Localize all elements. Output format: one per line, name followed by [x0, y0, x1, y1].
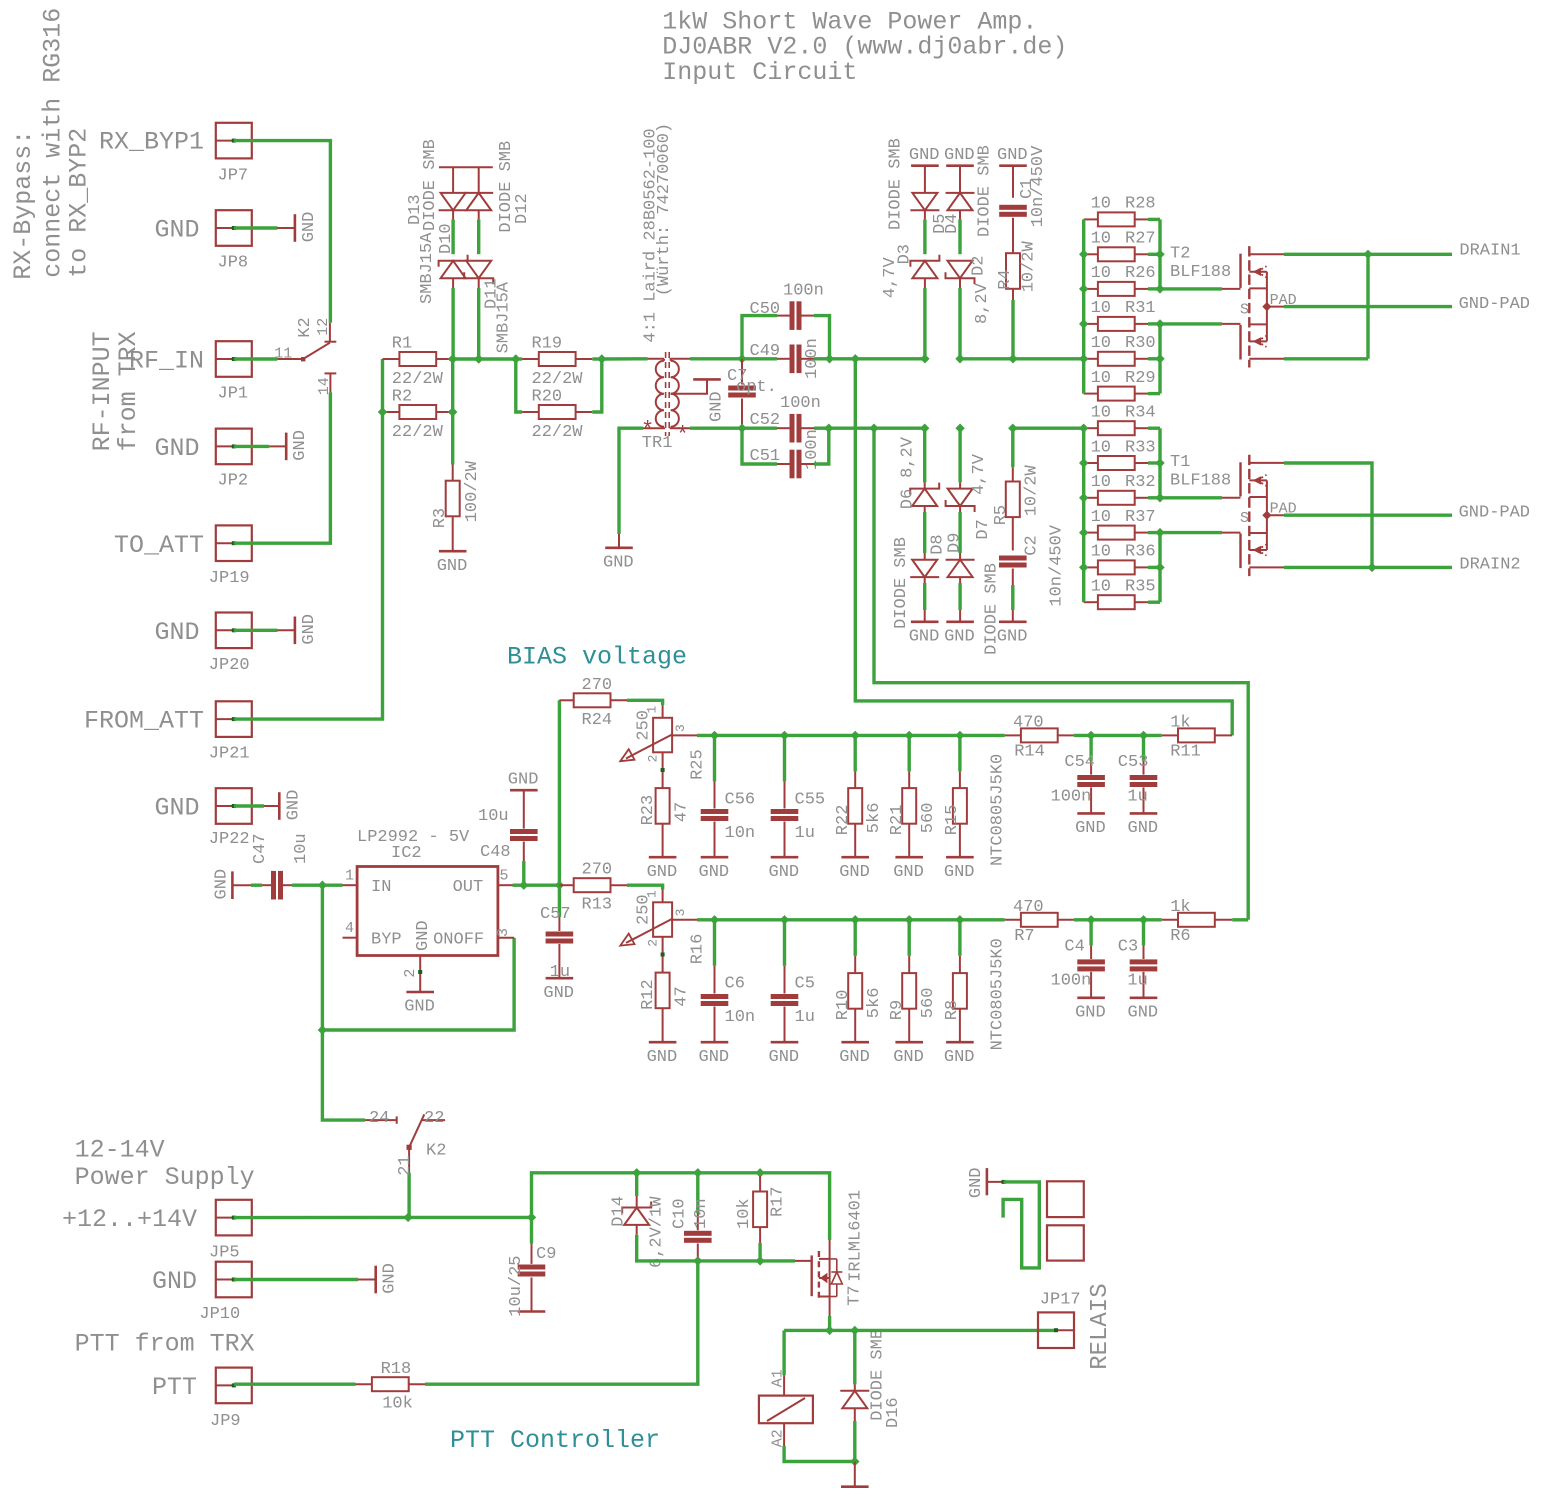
- ground at D4: [946, 164, 974, 167]
- trimmer R25 250: [653, 718, 672, 753]
- svg-text:R30: R30: [1125, 334, 1156, 353]
- svg-text:R15: R15: [943, 805, 962, 836]
- svg-text:C3: C3: [1118, 938, 1138, 957]
- svg-text:10: 10: [1091, 369, 1111, 388]
- svg-text:R4: R4: [996, 269, 1015, 289]
- svg-text:GND: GND: [1075, 819, 1106, 838]
- svg-text:TR1: TR1: [642, 434, 673, 453]
- resistor R8: [958, 920, 961, 956]
- ground at C56: [701, 856, 729, 859]
- op-amp U1 regulator IC2 LP2992 box: [357, 867, 498, 956]
- svg-text:3: 3: [495, 928, 512, 937]
- wire OUT node: [513, 884, 524, 887]
- capacitor C1 10n/450V: [1012, 166, 1014, 198]
- svg-text:DIODE SMB: DIODE SMB: [421, 139, 440, 231]
- wire gate rail: [698, 1259, 760, 1262]
- junction C7 bottom: [737, 424, 746, 433]
- svg-text:4: 4: [345, 920, 354, 937]
- diode D4 (DIODE SMB): [959, 166, 961, 193]
- transistor T1 (BLF188): [1239, 462, 1241, 496]
- ground at C1: [999, 164, 1027, 167]
- svg-text:C56: C56: [725, 790, 756, 809]
- svg-text:S: S: [1240, 510, 1249, 527]
- junction gate1 T2: [1155, 284, 1164, 293]
- junction D7: [955, 424, 964, 433]
- svg-text:22/2W: 22/2W: [392, 423, 444, 442]
- junction K2 pin 21: [403, 1213, 412, 1222]
- connector box spare 1: [1047, 1181, 1084, 1217]
- wire PTT to R18: [234, 1382, 356, 1385]
- svg-text:K2: K2: [296, 317, 315, 337]
- ground at C47: [231, 871, 234, 899]
- svg-text:A2: A2: [770, 1429, 787, 1447]
- wire T1 PAD to GND-PAD: [1284, 514, 1452, 517]
- svg-text:BYP: BYP: [371, 931, 402, 950]
- svg-text:GND: GND: [212, 869, 231, 900]
- svg-text:10u: 10u: [292, 833, 311, 864]
- resistor R33 (10): [1084, 462, 1098, 464]
- junction bias row1: [780, 731, 789, 740]
- svg-text:GND: GND: [152, 1267, 197, 1296]
- wire row1 to C1R4: [960, 357, 1013, 360]
- capacitor C49: [742, 357, 777, 360]
- svg-text:3: 3: [673, 724, 688, 732]
- junction bank2 top: [1079, 424, 1088, 433]
- svg-text:SMBJ15A: SMBJ15A: [495, 281, 514, 353]
- junction D2: [955, 354, 964, 363]
- svg-text:R22: R22: [834, 805, 853, 836]
- svg-text:4,7V: 4,7V: [970, 453, 989, 495]
- svg-text:C49: C49: [750, 342, 781, 361]
- capacitor C56 10n: [713, 735, 716, 781]
- svg-text:D7: D7: [974, 519, 993, 539]
- svg-text:GND: GND: [839, 1048, 870, 1067]
- wire JP8 to ground: [234, 226, 278, 229]
- svg-text:2: 2: [646, 939, 661, 947]
- connector JP9: [216, 1368, 252, 1404]
- capacitor C47 10u: [232, 884, 251, 886]
- wire K2 pin 14 to TO_ATT: [234, 392, 331, 543]
- resistor R7 470: [1005, 919, 1022, 921]
- svg-text:47: 47: [672, 986, 691, 1006]
- junction R17 top: [755, 1168, 764, 1177]
- diode D11 (SMBJ15A): [466, 261, 491, 278]
- resistor R34 (10): [1084, 427, 1098, 429]
- svg-text:(Würth: 74270060): (Würth: 74270060): [655, 123, 674, 296]
- connector JP17: [1038, 1312, 1074, 1348]
- wire bank1 right bus upper: [1158, 219, 1161, 289]
- junction bias row1: [905, 731, 914, 740]
- svg-text:TO_ATT: TO_ATT: [114, 531, 204, 560]
- ground at C57: [546, 977, 574, 980]
- svg-text:GND-PAD: GND-PAD: [1459, 504, 1530, 523]
- zener D2 8.2V: [948, 261, 973, 278]
- svg-text:GND: GND: [699, 863, 730, 882]
- svg-text:R27: R27: [1125, 230, 1156, 249]
- ground at R22: [841, 856, 869, 859]
- svg-text:DIODE SMB: DIODE SMB: [975, 145, 994, 237]
- svg-text:D16: D16: [884, 1397, 903, 1428]
- resistor R17 10k: [758, 1173, 761, 1176]
- wire T2 PAD to GND-PAD: [1284, 305, 1452, 308]
- svg-text:T2: T2: [1170, 245, 1190, 264]
- resistor R3: [452, 465, 454, 481]
- wire bank1 right bus lower: [1158, 324, 1161, 394]
- junction node A (R1 right): [448, 354, 457, 363]
- svg-text:C47: C47: [251, 833, 270, 864]
- capacitor C10 10n: [696, 1173, 699, 1213]
- junction bias row2: [710, 915, 719, 924]
- svg-text:10n: 10n: [725, 1008, 756, 1027]
- junction gate1 T1: [1155, 493, 1164, 502]
- ground at spare: [986, 1168, 989, 1195]
- svg-text:JP17: JP17: [1040, 1291, 1081, 1310]
- svg-text:JP1: JP1: [218, 384, 249, 403]
- svg-text:R13: R13: [582, 896, 613, 915]
- svg-text:R8: R8: [943, 1000, 962, 1020]
- svg-text:R17: R17: [769, 1186, 788, 1217]
- connector JP21: [216, 701, 252, 737]
- diode D5 (DIODE SMB): [924, 166, 926, 193]
- svg-text:NTC0805J5K0: NTC0805J5K0: [988, 754, 1007, 866]
- junction D3: [920, 354, 929, 363]
- wire D3 to RF row1: [923, 288, 926, 359]
- transistor T2 (BLF188): [1239, 254, 1241, 288]
- junction bias row2: [780, 915, 789, 924]
- svg-text:R2: R2: [392, 388, 412, 407]
- junction bank1 right lower: [1155, 354, 1164, 363]
- junction R17 bottom: [755, 1256, 764, 1265]
- wire D7-D9: [958, 512, 961, 553]
- svg-text:C5: C5: [795, 975, 815, 994]
- svg-text:R31: R31: [1125, 299, 1156, 318]
- ground at JP10: [374, 1266, 377, 1294]
- svg-text:8,2V: 8,2V: [973, 282, 992, 324]
- svg-text:R34: R34: [1125, 404, 1156, 423]
- svg-text:GND: GND: [381, 1263, 400, 1294]
- connector JP20: [216, 613, 252, 649]
- ground at R15: [946, 856, 974, 859]
- wire IN to pin 1: [322, 884, 342, 887]
- svg-text:R21: R21: [888, 805, 907, 836]
- ground at C3: [1130, 996, 1158, 999]
- ground at C6: [701, 1041, 729, 1044]
- capacitor C50: [742, 316, 777, 359]
- wire R1-R2 right tie: [449, 357, 453, 360]
- ground at C48: [510, 789, 538, 792]
- capacitor C6 10n: [713, 920, 716, 966]
- svg-text:GND: GND: [300, 614, 319, 645]
- svg-text:C2: C2: [1023, 535, 1042, 555]
- ground at JP8: [294, 214, 297, 242]
- svg-text:1u: 1u: [795, 824, 815, 843]
- wire R18 to PTT controller: [425, 1261, 698, 1384]
- svg-text:GND: GND: [944, 146, 975, 165]
- wire down to R3: [451, 412, 454, 465]
- ground at TR1 center tap: [693, 378, 721, 381]
- svg-text:GND: GND: [1075, 1003, 1106, 1022]
- transformer TR1: [656, 361, 664, 427]
- junction C10 bottom: [693, 1256, 702, 1265]
- wire D2 to RF row1: [958, 288, 961, 359]
- junction C53: [1139, 731, 1148, 740]
- junction C50 right: [825, 354, 834, 363]
- wire R13 to trimmer R16: [627, 885, 663, 889]
- svg-text:GND: GND: [1128, 1003, 1159, 1022]
- wire R19-R20 right tie: [592, 359, 602, 412]
- svg-text:GND: GND: [284, 790, 303, 821]
- wire T1 drain top: [1284, 463, 1372, 567]
- svg-text:R26: R26: [1125, 264, 1156, 283]
- junction OUT/C57: [555, 881, 564, 890]
- svg-text:10n: 10n: [692, 1198, 711, 1229]
- svg-text:10/2W: 10/2W: [1019, 240, 1038, 292]
- resistor R26 (10): [1084, 288, 1098, 290]
- wire gate1 to T1: [1160, 496, 1222, 499]
- svg-text:R19: R19: [532, 335, 563, 354]
- junction bias row2: [851, 915, 860, 924]
- svg-text:PTT Controller: PTT Controller: [450, 1426, 660, 1455]
- junction D16 top: [850, 1326, 859, 1335]
- svg-text:22/2W: 22/2W: [532, 370, 584, 389]
- wire T2 drain bottom: [1284, 357, 1368, 360]
- ground at R10: [841, 1041, 869, 1044]
- junction D14 top: [632, 1168, 641, 1177]
- junction gnd node: [850, 1457, 859, 1466]
- svg-text:JP7: JP7: [218, 166, 249, 185]
- svg-text:R9: R9: [888, 1000, 907, 1020]
- junction C48: [519, 881, 528, 890]
- svg-text:250: 250: [635, 710, 654, 741]
- connector box spare 2: [1047, 1225, 1084, 1260]
- wire RF row 1: [453, 357, 516, 360]
- capacitor C2 10n/450V: [999, 556, 1027, 561]
- resistor R30 (10): [1084, 358, 1098, 360]
- junction bias row2: [905, 915, 914, 924]
- diode D13 (DIODE SMB): [439, 166, 493, 168]
- svg-text:22/2W: 22/2W: [532, 423, 584, 442]
- svg-text:GND: GND: [603, 553, 634, 572]
- svg-text:270: 270: [582, 676, 613, 695]
- resistor R11 1k: [1144, 734, 1162, 737]
- svg-text:C4: C4: [1064, 938, 1084, 957]
- wire D11 to node A: [477, 288, 480, 359]
- svg-text:opt.: opt.: [736, 378, 777, 397]
- svg-text:10: 10: [1091, 195, 1111, 214]
- ground at TR1 primary: [605, 546, 633, 549]
- junction bias row1: [851, 731, 860, 740]
- connector JP8: [216, 210, 252, 246]
- svg-text:10: 10: [1091, 438, 1111, 457]
- svg-text:10: 10: [1091, 543, 1111, 562]
- svg-text:2: 2: [646, 755, 661, 763]
- svg-text:R5: R5: [992, 505, 1011, 525]
- pin 3 ONOFF: [498, 937, 514, 939]
- wire IN riser down: [321, 885, 324, 1030]
- wire bank2 right bus upper: [1158, 428, 1161, 498]
- ground at R23: [649, 856, 677, 859]
- resistor R22 5k6: [854, 735, 857, 771]
- wire bias riser 1: [855, 359, 1232, 736]
- junction C7 top: [737, 354, 746, 363]
- svg-text:4,7V: 4,7V: [881, 256, 900, 298]
- svg-text:250: 250: [635, 894, 654, 925]
- capacitor C52: [742, 427, 777, 430]
- svg-text:IN: IN: [371, 878, 391, 897]
- svg-text:12-14V: 12-14V: [75, 1135, 165, 1164]
- svg-text:R28: R28: [1125, 195, 1156, 214]
- junction gate2 T2: [1155, 319, 1164, 328]
- junction bank1 left: [1079, 250, 1088, 259]
- svg-text:DRAIN2: DRAIN2: [1459, 556, 1520, 575]
- capacitor C9 10u/25: [530, 1217, 533, 1243]
- wire bias row 2: [697, 918, 1005, 921]
- svg-text:10: 10: [1091, 578, 1111, 597]
- svg-text:1: 1: [345, 868, 354, 885]
- svg-text:100n: 100n: [780, 394, 821, 413]
- pin 2 GND: [419, 956, 421, 971]
- wire RF_IN to K2 pin 11: [234, 357, 277, 360]
- svg-text:*: *: [676, 423, 689, 448]
- wire to TR1 primary: [602, 357, 648, 361]
- wire K2 pin 21: [407, 1173, 410, 1218]
- wire C54-C53: [1091, 734, 1143, 737]
- svg-text:GND: GND: [154, 794, 199, 823]
- wire drain node: [784, 1329, 855, 1332]
- connector JP19: [216, 525, 252, 561]
- svg-text:T1: T1: [1170, 453, 1190, 472]
- ground at D5: [911, 164, 939, 167]
- svg-text:R23: R23: [639, 795, 658, 826]
- svg-text:GND: GND: [404, 998, 435, 1017]
- resistor R12 47: [656, 973, 670, 1009]
- wire gate2 to T1: [1160, 531, 1222, 534]
- svg-text:NTC0805J5K0: NTC0805J5K0: [988, 938, 1007, 1050]
- svg-text:GND: GND: [647, 863, 678, 882]
- diode D16 (DIODE SMB): [853, 1330, 856, 1384]
- wire ONOFF loop: [322, 938, 514, 1030]
- svg-text:S: S: [1240, 302, 1249, 319]
- ground at IC2 pin 2: [406, 991, 434, 994]
- wire R14-C54: [1074, 734, 1091, 737]
- svg-text:R14: R14: [1014, 742, 1045, 761]
- wire ONOFF to K2 pole 24: [322, 1030, 365, 1120]
- ground at C2: [999, 620, 1027, 623]
- wire D6-D8: [923, 512, 926, 553]
- svg-text:R36: R36: [1125, 543, 1156, 562]
- svg-text:22: 22: [424, 1109, 444, 1128]
- wire D10 to node A: [451, 288, 454, 359]
- wire D14 to gate rail: [637, 1235, 698, 1261]
- wire D5-D3: [923, 219, 926, 254]
- svg-text:1u: 1u: [1127, 972, 1147, 991]
- zener D3 4.7V: [912, 261, 937, 278]
- resistor R18 10k: [356, 1383, 373, 1385]
- connector JP7: [216, 123, 252, 159]
- junction R2 right: [448, 407, 457, 416]
- junction bias row1: [955, 731, 964, 740]
- ground at JP20: [294, 617, 297, 645]
- junction C3: [1139, 915, 1148, 924]
- ground at R3: [439, 550, 467, 553]
- wire 12V to top rail: [532, 1173, 637, 1218]
- wire 5V riser to R24: [558, 700, 561, 885]
- ground at C4: [1077, 996, 1105, 999]
- svg-text:JP21: JP21: [209, 745, 250, 764]
- junction bias riser 1: [851, 354, 860, 363]
- svg-text:GND: GND: [909, 146, 940, 165]
- svg-text:10: 10: [1091, 473, 1111, 492]
- svg-text:GND: GND: [944, 1048, 975, 1067]
- wire spare zigzag: [987, 1181, 1004, 1183]
- wire TR1 secondary top to row: [690, 357, 742, 360]
- wire to relay A1: [782, 1330, 785, 1375]
- svg-text:JP2: JP2: [218, 472, 249, 491]
- diode D10 (SMBJ15A): [441, 261, 466, 278]
- wire drain to JP17: [855, 1329, 1056, 1332]
- resistor R10 5k6: [854, 920, 857, 956]
- svg-text:JP9: JP9: [210, 1412, 241, 1431]
- svg-text:GND: GND: [291, 430, 310, 461]
- svg-text:PTT: PTT: [152, 1373, 197, 1402]
- svg-text:GND: GND: [154, 434, 199, 463]
- wire T7 top: [829, 1240, 831, 1259]
- svg-text:RX-Bypass:: RX-Bypass:: [9, 130, 38, 280]
- svg-text:GND: GND: [154, 618, 199, 647]
- junction C10 top: [693, 1168, 702, 1177]
- svg-text:8,2V: 8,2V: [898, 436, 917, 478]
- transistor T7 IRLML6401: [811, 1255, 813, 1296]
- svg-text:GND: GND: [997, 627, 1028, 646]
- junction bias row2: [955, 915, 964, 924]
- svg-text:1k: 1k: [1170, 714, 1190, 733]
- svg-text:GND-PAD: GND-PAD: [1459, 295, 1530, 314]
- svg-text:470: 470: [1013, 714, 1044, 733]
- svg-text:100n: 100n: [783, 281, 824, 300]
- svg-text:D9: D9: [946, 533, 965, 553]
- wire D9 to ground: [958, 583, 961, 610]
- svg-text:C54: C54: [1064, 753, 1095, 772]
- svg-text:GND: GND: [839, 863, 870, 882]
- svg-text:5k6: 5k6: [865, 803, 884, 834]
- svg-text:C53: C53: [1118, 753, 1149, 772]
- svg-text:JP22: JP22: [209, 830, 250, 849]
- svg-text:IRLML6401: IRLML6401: [847, 1190, 866, 1282]
- capacitor C54 100n: [1089, 735, 1092, 761]
- svg-text:10k: 10k: [735, 1198, 754, 1229]
- svg-text:GND: GND: [437, 557, 468, 576]
- junction bank2 right lower: [1155, 563, 1164, 572]
- svg-text:C6: C6: [725, 975, 745, 994]
- svg-text:PTT from TRX: PTT from TRX: [75, 1330, 255, 1359]
- wire D8 to ground: [923, 583, 926, 610]
- svg-text:560: 560: [919, 988, 938, 1019]
- junction bank2 left: [1079, 458, 1088, 467]
- svg-text:100n: 100n: [1051, 972, 1092, 991]
- svg-text:3: 3: [673, 909, 688, 917]
- ground at R9: [895, 1041, 923, 1044]
- resistor R36 (10): [1084, 566, 1098, 568]
- junction bank1 left: [1079, 354, 1088, 363]
- resistor R13 270: [559, 884, 574, 886]
- trimmer R16 250: [653, 902, 672, 937]
- junction C9: [527, 1213, 536, 1222]
- svg-text:GND: GND: [543, 984, 574, 1003]
- wire T2 drain tie: [1366, 254, 1369, 358]
- svg-text:GND: GND: [647, 1048, 678, 1067]
- wire OUT to junction: [524, 884, 560, 887]
- svg-text:R29: R29: [1125, 369, 1156, 388]
